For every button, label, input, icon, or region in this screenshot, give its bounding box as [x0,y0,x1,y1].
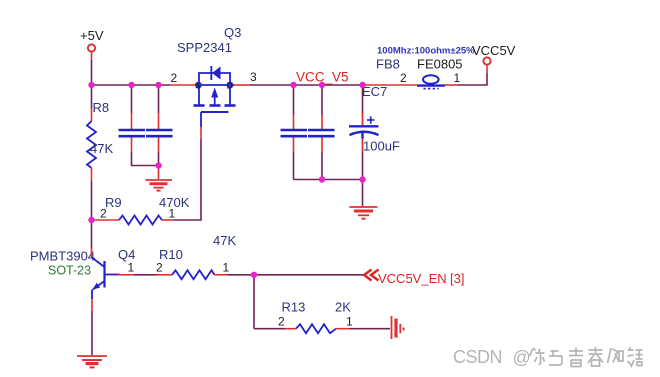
svg-text:S: S [195,82,201,91]
svg-text:R8: R8 [93,100,110,115]
ground under EC7 [350,207,378,219]
svg-text:2: 2 [278,315,285,329]
pin R8 bottom (red) [91,168,93,181]
svg-text:FB8: FB8 [376,57,400,72]
svg-text:47K: 47K [90,141,113,156]
op-amp: MOSFET Q3 body [194,66,236,127]
resistor R13 [296,324,336,333]
pin R10 right (red) [215,274,229,276]
svg-text:D: D [227,82,233,91]
wire R8 to collector [91,181,93,248]
svg-text:R9: R9 [105,195,122,210]
wire R10 to EN node [228,274,254,276]
capacitor C2 [146,85,173,179]
resistor R8 [87,121,96,168]
pin R9 right (red) [162,219,174,221]
svg-text:R13: R13 [282,300,306,315]
svg-text:CSDN: CSDN [453,347,502,367]
svg-text:VCC5V: VCC5V [472,43,516,58]
pin R13 right (red) [336,328,350,330]
power port +5V [80,28,104,60]
svg-text:2: 2 [156,261,163,275]
ground under Q4 emitter [77,356,107,367]
svg-text:FE0805: FE0805 [417,57,463,72]
resistor R10 [172,270,215,279]
svg-text:SPP2341: SPP2341 [177,40,232,55]
svg-text:PMBT3904: PMBT3904 [30,249,95,264]
svg-text:2: 2 [100,207,107,221]
ferrite bead FB8 [417,75,445,88]
pin R13 left (red) [285,328,296,330]
svg-text:3: 3 [250,70,257,84]
svg-text:SOT-23: SOT-23 [48,264,91,278]
wire FB8 to VCC5V corner [458,73,487,85]
wire EC7 to ground [362,180,364,207]
pin Q3 D node circle [227,82,234,91]
svg-text:2K: 2K [335,300,351,315]
pin R9 left (red) [93,219,119,221]
svg-text:Q3: Q3 [224,25,241,40]
svg-text:1: 1 [346,315,353,329]
wire +5V down to rail [91,60,93,85]
node junction dots [88,82,365,278]
wire bottom rail of caps [294,179,363,181]
capacitor C3 [281,85,308,180]
svg-text:@: @ [513,348,531,368]
pin R10 left (red) [156,274,173,276]
capacitor EC7 electrolytic [349,85,379,180]
transistor Q4 [92,258,120,300]
ground rotated right of R13 [392,316,404,339]
svg-text:EC7: EC7 [362,84,387,99]
svg-text:+5V: +5V [80,28,104,43]
wire gate down to R9 [174,139,201,220]
pin FB8 pin1 (red) [445,84,458,86]
svg-text:47K: 47K [213,233,236,248]
pin FB8 pin2 (red) [364,84,417,86]
net label VCC5V_EN [3] with chevrons [364,270,464,287]
pin Q3 gate (red) [200,127,202,139]
wire EN node to label [254,274,364,276]
wire rail to R8 [91,85,93,108]
svg-text:1: 1 [128,261,135,275]
wire base to R10 [134,274,156,276]
pin Q3 drain (red) [234,84,250,86]
wire R13 to ground [350,328,390,330]
wire emitter down to ground [91,299,93,355]
wire main rail left [92,84,171,86]
svg-text:100Mhz:100ohm±25%: 100Mhz:100ohm±25% [377,46,475,57]
pin R8 top (red) [91,108,93,121]
power port VCC5V [472,43,516,73]
pin Q4 collector (red) [91,248,93,258]
capacitor C4 [308,85,335,180]
ground under C1 C2 [146,180,173,191]
svg-text:1: 1 [223,261,230,275]
svg-text:2: 2 [400,71,407,85]
resistor R9 [119,216,162,225]
capacitor C1 [119,85,159,166]
svg-text:1: 1 [169,207,176,221]
svg-text:2: 2 [171,71,178,85]
watermark CSDN [453,347,643,368]
wire EN node down to R13 [253,275,255,329]
svg-text:VCC5V_EN: VCC5V_EN [378,271,447,286]
svg-text:1: 1 [454,71,461,85]
pin Q3 source (red) [170,84,195,86]
svg-text:100uF: 100uF [363,139,400,154]
svg-text:[3]: [3] [450,271,464,286]
wire EN drop to R13 [254,328,285,330]
wire rail drain to EC7 [250,84,364,86]
pin Q4 base (red) [118,274,134,276]
pin Q3 S node circle [195,82,202,91]
